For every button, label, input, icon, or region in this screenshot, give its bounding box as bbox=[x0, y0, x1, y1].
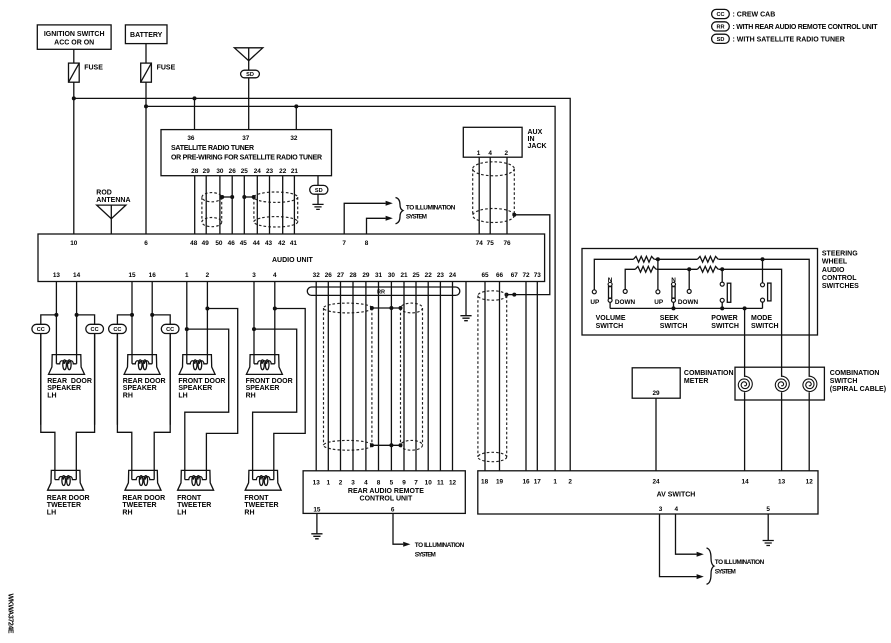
wire fuse F2 down to audio unit pin 6 bbox=[145, 82, 147, 234]
shield cylinder (tuner wires 29-30) bbox=[202, 193, 222, 227]
svg-text:1: 1 bbox=[477, 150, 481, 157]
junction front door LH R bbox=[205, 307, 209, 311]
svg-text:32: 32 bbox=[290, 135, 298, 142]
branch wire rear door RH L to CC bbox=[117, 315, 132, 425]
wire steering line2 part c bbox=[718, 269, 781, 377]
wire seek DOWN drop bbox=[688, 269, 690, 289]
svg-text:IN: IN bbox=[528, 136, 535, 143]
junction front door RH L bbox=[252, 327, 256, 331]
wire audio unit to remote unit pin 2 bbox=[340, 282, 342, 471]
svg-text:18: 18 bbox=[481, 478, 489, 485]
svg-text:5: 5 bbox=[766, 506, 770, 513]
shield cylinder (av wires 65-66) bbox=[478, 291, 507, 462]
wire audio to front door LH speaker lead R bbox=[206, 282, 208, 355]
satellite antenna symbol bbox=[234, 48, 262, 61]
svg-text:TWEETER: TWEETER bbox=[47, 502, 81, 509]
svg-text:LH: LH bbox=[178, 392, 187, 399]
svg-text:STEERING: STEERING bbox=[822, 251, 858, 258]
svg-text:METER: METER bbox=[684, 378, 709, 385]
svg-text:SWITCHES: SWITCHES bbox=[822, 283, 859, 290]
svg-text:: WITH REAR AUDIO REMOTE CONTR: : WITH REAR AUDIO REMOTE CONTROL UNIT bbox=[733, 24, 879, 31]
svg-text:UP: UP bbox=[654, 299, 664, 306]
svg-text:29: 29 bbox=[203, 168, 211, 175]
junction aux drain / wire 67 bbox=[512, 293, 516, 297]
satellite radio tuner box bbox=[161, 130, 332, 176]
svg-text:RH: RH bbox=[244, 509, 254, 516]
svg-text:10: 10 bbox=[70, 240, 78, 247]
svg-text:13: 13 bbox=[53, 272, 61, 279]
svg-text:LH: LH bbox=[177, 509, 186, 516]
wire audio 65 to AV 18 bbox=[484, 282, 486, 471]
svg-text:REAR DOOR: REAR DOOR bbox=[123, 378, 166, 385]
wire tuner ground pin to SD oval bbox=[317, 176, 319, 186]
svg-text:21: 21 bbox=[291, 168, 299, 175]
wire bus ACC to tuner pin 36 bbox=[194, 98, 196, 129]
legend SD symbol bbox=[712, 34, 730, 43]
audio unit U1 bbox=[38, 234, 545, 282]
wire audio unit to remote unit pin 5 bbox=[390, 282, 392, 471]
wire aux pin 1 to audio 74 bbox=[478, 157, 480, 234]
svg-text:3: 3 bbox=[351, 479, 355, 486]
svg-text:50: 50 bbox=[215, 240, 223, 247]
wire tuner pin 22 to audio unit bbox=[282, 176, 284, 234]
svg-text:SWITCH: SWITCH bbox=[830, 378, 858, 385]
branch wire front door LH R (outer) bbox=[206, 309, 237, 471]
CC oval rear door LH R bbox=[86, 324, 104, 333]
wire ignition to fuse bbox=[73, 49, 75, 63]
SD condition oval (tuner ground) bbox=[310, 185, 328, 194]
svg-text:13: 13 bbox=[313, 479, 321, 486]
svg-text:14: 14 bbox=[742, 478, 750, 485]
svg-text:7: 7 bbox=[414, 479, 418, 486]
wire SD oval to tuner pin 37 bbox=[248, 78, 250, 130]
svg-text:COMBINATION: COMBINATION bbox=[684, 370, 734, 377]
svg-text:3: 3 bbox=[659, 506, 663, 513]
svg-text:76: 76 bbox=[503, 240, 511, 247]
CC oval rear door LH L bbox=[32, 324, 50, 333]
svg-text:13: 13 bbox=[778, 478, 786, 485]
svg-text:26: 26 bbox=[325, 272, 333, 279]
svg-text:CC: CC bbox=[716, 12, 724, 18]
svg-text:8: 8 bbox=[377, 479, 381, 486]
svg-text:SWITCH: SWITCH bbox=[751, 323, 779, 330]
brace illumination lower bbox=[707, 548, 715, 584]
svg-text:REAR DOOR: REAR DOOR bbox=[47, 495, 90, 502]
battery box bbox=[125, 25, 167, 44]
junction rear door RH L bbox=[130, 313, 134, 317]
wire spiral 2 to AV pin 13 bbox=[781, 392, 783, 471]
bus wire ACC (to AV switch pin 2) bbox=[74, 98, 570, 470]
svg-text:CONTROL UNIT: CONTROL UNIT bbox=[360, 496, 413, 503]
svg-text:6: 6 bbox=[144, 240, 148, 247]
shield cylinder (aux wires) bbox=[473, 162, 515, 223]
svg-text:24: 24 bbox=[652, 478, 660, 485]
svg-text:45: 45 bbox=[240, 240, 248, 247]
tweeter rear door RH bbox=[125, 470, 161, 490]
svg-text:SYSTEM: SYSTEM bbox=[715, 569, 736, 576]
svg-text:46: 46 bbox=[228, 240, 236, 247]
power switch actuator bbox=[727, 283, 731, 302]
svg-text:SWITCH: SWITCH bbox=[660, 323, 688, 330]
svg-text:MODE: MODE bbox=[751, 315, 772, 322]
resistor R2 bbox=[697, 256, 718, 262]
seek switch contact bottom bbox=[672, 298, 676, 302]
svg-text:2: 2 bbox=[339, 479, 343, 486]
svg-text:72: 72 bbox=[522, 272, 530, 279]
svg-text:2: 2 bbox=[206, 272, 210, 279]
wire SD oval to ground bbox=[317, 194, 319, 204]
wire seek bottom to bus bbox=[673, 302, 675, 308]
svg-text:FRONT DOOR: FRONT DOOR bbox=[246, 378, 293, 385]
svg-text:37: 37 bbox=[242, 135, 250, 142]
wire audio unit to remote unit pin 4 bbox=[365, 282, 367, 471]
svg-text:28: 28 bbox=[191, 168, 199, 175]
svg-text:(SPIRAL CABLE): (SPIRAL CABLE) bbox=[830, 386, 886, 393]
svg-text:10: 10 bbox=[425, 479, 433, 486]
drain dot aux cylinder bbox=[512, 213, 516, 217]
wire steering line1 part c bbox=[718, 259, 809, 377]
volume UP contact bbox=[592, 290, 596, 294]
svg-text:SD: SD bbox=[315, 188, 323, 194]
svg-text:16: 16 bbox=[149, 272, 157, 279]
svg-text:9: 9 bbox=[402, 479, 406, 486]
svg-text:25: 25 bbox=[412, 272, 420, 279]
svg-text:66: 66 bbox=[496, 272, 504, 279]
svg-text:REAR AUDIO REMOTE: REAR AUDIO REMOTE bbox=[348, 488, 424, 495]
wire remote pin 15 to ground bbox=[316, 513, 318, 533]
junction line2 / seek DOWN bbox=[687, 267, 691, 271]
junction bus BAT / tuner pin32 wire bbox=[294, 104, 298, 108]
shield drain big cylinder to wire 45 bbox=[244, 196, 253, 198]
svg-text:12: 12 bbox=[449, 479, 457, 486]
bus wire BAT (to AV switch pin 1) bbox=[146, 106, 555, 470]
wire rear door LH CC R down to tweeter bbox=[76, 334, 94, 471]
arrow illumination remote bbox=[403, 542, 410, 547]
drain dot cylinder 65-66 bbox=[505, 293, 509, 297]
svg-text:TO ILLUMINATION: TO ILLUMINATION bbox=[406, 205, 456, 212]
svg-text:RH: RH bbox=[122, 509, 132, 516]
shield drain small cylinder to wire 46 bbox=[222, 196, 232, 198]
drain dot left cyl bottom bbox=[370, 443, 374, 447]
svg-text:22: 22 bbox=[425, 272, 433, 279]
wire audio pin 8 to illumination bbox=[367, 218, 386, 234]
svg-text:CC: CC bbox=[37, 327, 45, 333]
wire steering bus to spiral 1 bbox=[744, 308, 746, 377]
svg-text:2: 2 bbox=[568, 478, 572, 485]
svg-text:73: 73 bbox=[534, 272, 542, 279]
svg-text:FUSE: FUSE bbox=[157, 65, 176, 72]
wire audio unit to remote unit pin 11 bbox=[439, 282, 441, 471]
shield cylinder (tuner wires 24-21) bbox=[254, 192, 298, 227]
seek DOWN contact bbox=[687, 289, 691, 293]
junction line2 / power switch bbox=[720, 267, 724, 271]
junction bus ACC / pin10 wire bbox=[72, 96, 76, 100]
volume DOWN contact bbox=[623, 289, 627, 293]
wire tuner pin 28 to audio unit bbox=[194, 176, 196, 234]
svg-text:43: 43 bbox=[265, 240, 273, 247]
junction bus BAT / pin6 wire bbox=[144, 104, 148, 108]
wire mode switch drop bbox=[762, 259, 764, 283]
wire volume bottom to bus bbox=[609, 302, 611, 308]
svg-text:27: 27 bbox=[337, 272, 345, 279]
svg-text:2: 2 bbox=[505, 150, 509, 157]
svg-text:1: 1 bbox=[327, 479, 331, 486]
svg-text:SPEAKER: SPEAKER bbox=[246, 385, 280, 392]
ground (remote unit) bbox=[311, 534, 322, 539]
speaker front door RH bbox=[246, 355, 282, 375]
wire audio 66 to AV 19 bbox=[499, 282, 501, 471]
junction bus / seek bbox=[672, 306, 676, 310]
svg-text:SPEAKER: SPEAKER bbox=[47, 385, 81, 392]
svg-text:49: 49 bbox=[202, 240, 210, 247]
wire AV pin 5 to ground bbox=[767, 514, 769, 540]
svg-text:ACC OR ON: ACC OR ON bbox=[54, 40, 94, 47]
svg-text:RH: RH bbox=[123, 392, 133, 399]
wire steering line2 part a bbox=[625, 269, 635, 289]
svg-text:29: 29 bbox=[362, 272, 370, 279]
svg-text:19: 19 bbox=[496, 478, 504, 485]
drain dot right cyl top bbox=[399, 306, 403, 310]
wire steering line1 part b bbox=[654, 258, 697, 260]
seek UP contact bbox=[656, 290, 660, 294]
junction drain / wire 30 top bbox=[389, 306, 393, 310]
svg-text:SATELLITE RADIO TUNER: SATELLITE RADIO TUNER bbox=[171, 145, 254, 152]
arrow illumination 2 bbox=[386, 216, 393, 221]
svg-text:SD: SD bbox=[246, 72, 254, 78]
wire audio to rear door RH speaker lead L bbox=[131, 282, 133, 355]
wire audio unit to remote unit pin 10 bbox=[427, 282, 429, 471]
legend CC symbol bbox=[712, 9, 730, 18]
svg-text:3: 3 bbox=[252, 272, 256, 279]
RR condition pill bbox=[307, 287, 460, 296]
svg-text:30: 30 bbox=[388, 272, 396, 279]
svg-text:AUDIO: AUDIO bbox=[822, 267, 845, 274]
drain dot right cyl bottom bbox=[399, 443, 403, 447]
wire tuner pin 21 to audio unit bbox=[293, 176, 295, 234]
svg-text:21: 21 bbox=[400, 272, 408, 279]
wire tuner pin 25 to audio unit bbox=[243, 176, 245, 234]
junction bus ACC / tuner pin36 wire bbox=[193, 96, 197, 100]
brace illumination upper bbox=[396, 198, 404, 224]
combination switch box bbox=[735, 367, 824, 400]
junction rear door RH R bbox=[150, 313, 154, 317]
power switch contact bottom bbox=[720, 298, 724, 302]
svg-text:30: 30 bbox=[216, 168, 224, 175]
speaker front door LH bbox=[179, 355, 215, 375]
shield drain bottom link bbox=[372, 444, 401, 446]
svg-text:32: 32 bbox=[313, 272, 321, 279]
wire spiral 3 to AV pin 12 bbox=[808, 392, 810, 471]
svg-text:SPEAKER: SPEAKER bbox=[178, 385, 212, 392]
wire combination meter to AV pin 24 bbox=[655, 398, 657, 471]
shield cylinder left (remote harness) bbox=[324, 303, 372, 450]
svg-text:7: 7 bbox=[342, 240, 346, 247]
svg-text:25: 25 bbox=[241, 168, 249, 175]
wire rear door LH CC L down to tweeter bbox=[41, 334, 55, 471]
wire audio 72 to AV 16 bbox=[525, 282, 527, 471]
branch wire rear door RH R to CC bbox=[152, 315, 170, 425]
rear audio remote control unit bbox=[303, 471, 465, 514]
svg-text:TO ILLUMINATION: TO ILLUMINATION bbox=[715, 559, 765, 566]
wire aux pin 2 to audio 76 bbox=[506, 157, 508, 234]
arrow illumination 1 bbox=[386, 201, 393, 206]
drain link cylinder 65-66 to wire 67 bbox=[507, 294, 515, 296]
svg-text:CC: CC bbox=[113, 327, 121, 333]
wire audio to front door LH speaker lead L bbox=[186, 282, 188, 355]
svg-text:POWER: POWER bbox=[711, 315, 737, 322]
svg-text:1: 1 bbox=[185, 272, 189, 279]
svg-text:65: 65 bbox=[481, 272, 489, 279]
wire power switch drop bbox=[721, 269, 723, 282]
svg-text:IGNITION SWITCH: IGNITION SWITCH bbox=[44, 31, 105, 38]
seek switch actuator bbox=[672, 287, 675, 299]
volume switch contact bottom bbox=[608, 298, 612, 302]
volume switch actuator bbox=[609, 287, 612, 299]
spiral cable 3 bbox=[803, 376, 817, 391]
wire audio to rear door LH speaker lead L bbox=[55, 282, 57, 355]
wire remote pin 6 to illumination bbox=[393, 513, 403, 544]
wire audio unit to remote unit pin 13 bbox=[315, 282, 317, 471]
svg-text:UP: UP bbox=[590, 299, 600, 306]
svg-text:DOWN: DOWN bbox=[678, 299, 699, 306]
junction drain / wire 45 bbox=[242, 195, 246, 199]
svg-text:SYSTEM: SYSTEM bbox=[415, 551, 436, 558]
wire steering line1 part a bbox=[594, 259, 633, 290]
svg-text:CC: CC bbox=[166, 327, 174, 333]
wire tuner pin 26 to audio unit bbox=[231, 176, 233, 234]
svg-text:CC: CC bbox=[91, 327, 99, 333]
branch wire front door LH L (inner) bbox=[185, 329, 229, 470]
tweeter front door RH bbox=[245, 470, 281, 490]
ground (tuner shield) bbox=[312, 204, 323, 209]
drain dot left cyl top bbox=[370, 306, 374, 310]
svg-text:AUX: AUX bbox=[528, 129, 543, 136]
drain dot big cylinder bbox=[252, 195, 256, 199]
junction front door LH L bbox=[185, 327, 189, 331]
svg-text:FRONT: FRONT bbox=[177, 495, 202, 502]
svg-text:ANTENNA: ANTENNA bbox=[96, 197, 130, 204]
svg-text:6: 6 bbox=[391, 507, 395, 514]
svg-text:RR: RR bbox=[716, 24, 724, 30]
svg-text:14: 14 bbox=[73, 272, 81, 279]
wire AV pin 3 to illumination bbox=[660, 514, 697, 577]
junction drain / wire 46 bbox=[230, 195, 234, 199]
legend RR symbol bbox=[712, 22, 730, 31]
spiral cable 2 bbox=[775, 376, 789, 391]
wire power bottom to bus bbox=[721, 302, 723, 308]
svg-text:4: 4 bbox=[675, 506, 679, 513]
wire tuner pin 30 to audio unit bbox=[219, 176, 221, 234]
junction line1 / seek UP bbox=[656, 257, 660, 261]
svg-text:REAR DOOR: REAR DOOR bbox=[47, 378, 92, 385]
svg-text:SWITCH: SWITCH bbox=[596, 323, 624, 330]
aux in jack box bbox=[463, 127, 522, 157]
wire battery to fuse bbox=[145, 44, 147, 64]
svg-text:1: 1 bbox=[553, 478, 557, 485]
svg-text:VOLUME: VOLUME bbox=[596, 315, 626, 322]
branch wire front door RH L (inner) bbox=[253, 329, 297, 470]
resistor R3 bbox=[635, 266, 656, 272]
svg-text:TWEETER: TWEETER bbox=[122, 502, 156, 509]
svg-text:24: 24 bbox=[449, 272, 457, 279]
wire tuner pin 24 to audio unit bbox=[256, 176, 258, 234]
svg-text:: CREW CAB: : CREW CAB bbox=[733, 12, 776, 19]
svg-text:JACK: JACK bbox=[528, 143, 547, 150]
svg-text:FRONT: FRONT bbox=[244, 495, 269, 502]
wire tuner pin 23 to audio unit bbox=[269, 176, 271, 234]
volume switch contact top bbox=[608, 282, 612, 286]
ground (audio unit) bbox=[460, 316, 471, 321]
svg-text:ROD: ROD bbox=[96, 189, 112, 196]
svg-text:44: 44 bbox=[253, 240, 261, 247]
svg-text:SYSTEM: SYSTEM bbox=[406, 214, 427, 221]
steering wheel audio control switches box bbox=[582, 249, 818, 336]
wire audio 73 to AV 17 bbox=[536, 282, 538, 471]
svg-text:26: 26 bbox=[229, 168, 237, 175]
svg-text:FRONT DOOR: FRONT DOOR bbox=[178, 378, 225, 385]
wire seek UP drop bbox=[657, 259, 659, 290]
svg-text:17: 17 bbox=[534, 478, 542, 485]
svg-text:DOWN: DOWN bbox=[615, 299, 636, 306]
svg-text:BATTERY: BATTERY bbox=[130, 32, 163, 39]
svg-text:: WITH SATELLITE RADIO TUNER: : WITH SATELLITE RADIO TUNER bbox=[733, 36, 845, 43]
mode switch contact top bbox=[761, 283, 765, 287]
junction line1 / mode switch bbox=[761, 257, 765, 261]
svg-text:28: 28 bbox=[349, 272, 357, 279]
wire audio to rear door LH speaker lead R bbox=[76, 282, 78, 355]
junction front door RH R bbox=[273, 307, 277, 311]
svg-text:48: 48 bbox=[190, 240, 198, 247]
mode switch contact bottom bbox=[761, 298, 765, 302]
resistor R4 bbox=[697, 266, 718, 272]
wire audio unit to remote unit pin 7 bbox=[415, 282, 417, 471]
svg-text:SD: SD bbox=[717, 37, 725, 43]
svg-text:SPEAKER: SPEAKER bbox=[123, 385, 157, 392]
svg-text:42: 42 bbox=[278, 240, 286, 247]
svg-text:11: 11 bbox=[437, 479, 444, 486]
fuse F2 (battery) bbox=[141, 63, 152, 82]
wire audio unit to remote unit pin 1 bbox=[327, 282, 329, 471]
svg-text:15: 15 bbox=[313, 507, 321, 514]
svg-text:24: 24 bbox=[254, 168, 262, 175]
ground (AV switch) bbox=[763, 541, 774, 546]
wire audio unit to remote unit pin 9 bbox=[403, 282, 405, 471]
wire audio to front door RH speaker lead L bbox=[253, 282, 255, 355]
aux shield drain wire bbox=[514, 215, 550, 295]
arrow AV illumination 2 bbox=[697, 574, 704, 579]
svg-text:4: 4 bbox=[364, 479, 368, 486]
svg-text:67: 67 bbox=[511, 272, 519, 279]
svg-text:AV SWITCH: AV SWITCH bbox=[657, 492, 696, 499]
wire bus BAT to tuner pin 32 bbox=[295, 106, 297, 129]
svg-text:WKWA3724E: WKWA3724E bbox=[6, 594, 13, 634]
CC oval rear door RH R bbox=[161, 324, 179, 333]
wire rear door RH CC R down to tweeter bbox=[154, 334, 170, 471]
wire spiral 1 to AV pin 14 bbox=[744, 392, 746, 471]
steering bottom bus wire bbox=[610, 307, 762, 309]
wire audio to front door RH speaker lead R bbox=[274, 282, 276, 355]
junction bus / spiral wire bbox=[743, 306, 747, 310]
wire mode bottom to bus bbox=[762, 302, 764, 308]
wire rod antenna to audio unit bbox=[110, 219, 112, 234]
branch wire rear door LH R to CC bbox=[77, 315, 95, 425]
seek switch contact top bbox=[672, 282, 676, 286]
branch wire front door RH R (outer) bbox=[274, 309, 305, 471]
wire tuner pin 29 to audio unit bbox=[205, 176, 207, 234]
wire antenna to SD oval bbox=[248, 61, 250, 71]
svg-text:SWITCH: SWITCH bbox=[711, 323, 739, 330]
svg-text:WHEEL: WHEEL bbox=[822, 259, 848, 266]
